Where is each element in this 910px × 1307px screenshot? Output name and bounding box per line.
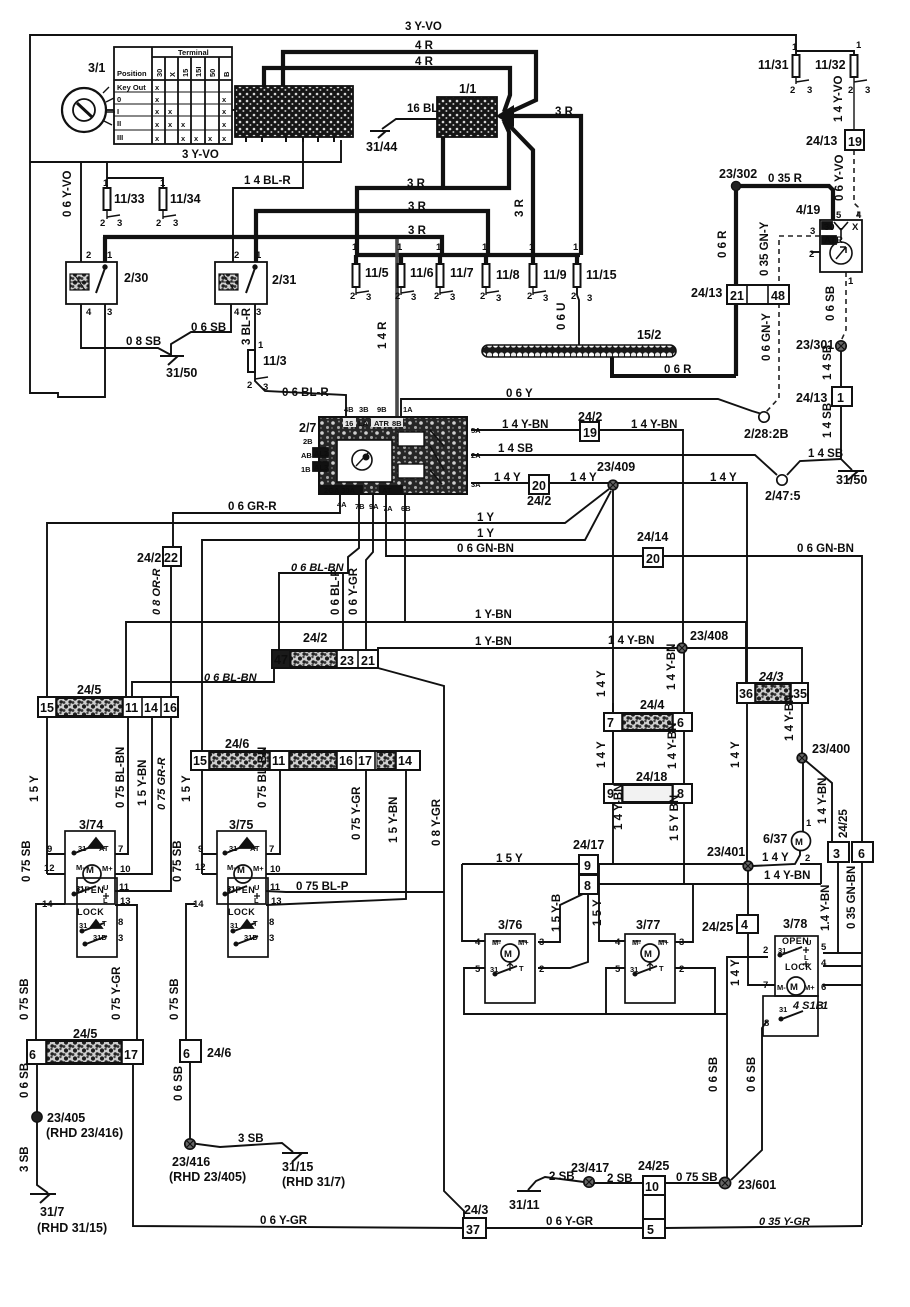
svg-text:2: 2 xyxy=(805,853,810,864)
svg-text:0 35 GN-Y: 0 35 GN-Y xyxy=(759,221,771,276)
svg-text:0 6 Y-GR: 0 6 Y-GR xyxy=(348,567,360,615)
svg-text:3 SB: 3 SB xyxy=(238,1133,264,1145)
svg-text:24/4: 24/4 xyxy=(640,698,664,712)
svg-text:4: 4 xyxy=(86,307,92,318)
svg-text:3: 3 xyxy=(411,292,416,303)
svg-text:1 4 SB: 1 4 SB xyxy=(808,448,843,460)
svg-text:M+: M+ xyxy=(102,864,113,873)
svg-text:1 4 Y-BN: 1 4 Y-BN xyxy=(608,635,654,647)
svg-text:11/5: 11/5 xyxy=(365,266,389,280)
svg-text:12: 12 xyxy=(44,863,55,874)
svg-text:6: 6 xyxy=(821,982,826,993)
svg-text:23/408: 23/408 xyxy=(690,629,728,643)
svg-text:2: 2 xyxy=(527,291,532,302)
svg-text:1: 1 xyxy=(529,242,535,253)
svg-text:M-: M- xyxy=(227,863,236,872)
svg-text:0 6 GR-R: 0 6 GR-R xyxy=(228,501,277,513)
svg-text:3/77: 3/77 xyxy=(636,918,660,932)
svg-text:31: 31 xyxy=(230,921,238,930)
svg-text:4A: 4A xyxy=(337,500,347,509)
svg-text:4: 4 xyxy=(475,937,481,948)
svg-text:x: x xyxy=(181,134,186,143)
svg-text:13: 13 xyxy=(271,896,282,907)
svg-text:2: 2 xyxy=(350,291,355,302)
svg-text:M-: M- xyxy=(777,983,786,992)
svg-text:22: 22 xyxy=(164,551,178,565)
svg-text:1: 1 xyxy=(792,42,798,53)
svg-text:3 R: 3 R xyxy=(514,198,526,217)
svg-text:30: 30 xyxy=(155,69,164,77)
svg-text:23: 23 xyxy=(340,654,354,668)
svg-text:1 4 Y: 1 4 Y xyxy=(596,741,608,768)
svg-text:3: 3 xyxy=(543,293,548,304)
svg-text:1 5 Y: 1 5 Y xyxy=(181,775,193,802)
svg-text:LOCK: LOCK xyxy=(228,907,255,917)
svg-text:24/25: 24/25 xyxy=(838,809,850,838)
svg-text:23/401: 23/401 xyxy=(707,845,745,859)
svg-text:11: 11 xyxy=(272,754,285,768)
svg-text:24/2: 24/2 xyxy=(527,494,551,508)
svg-text:AT: AT xyxy=(382,486,392,495)
svg-text:5: 5 xyxy=(821,942,827,953)
svg-text:7: 7 xyxy=(763,980,768,991)
svg-text:23/417: 23/417 xyxy=(571,1161,609,1175)
svg-text:AT: AT xyxy=(250,844,260,853)
svg-text:3: 3 xyxy=(117,218,122,229)
svg-text:X: X xyxy=(168,72,177,77)
svg-text:24/3: 24/3 xyxy=(758,670,783,684)
svg-text:6/37: 6/37 xyxy=(763,832,787,846)
svg-text:24/14: 24/14 xyxy=(637,530,668,544)
svg-text:1 5 Y: 1 5 Y xyxy=(496,853,523,865)
svg-text:OPEN: OPEN xyxy=(782,936,809,946)
svg-text:24/25: 24/25 xyxy=(702,920,733,934)
svg-text:1 5 Y: 1 5 Y xyxy=(592,899,604,926)
svg-text:24/25: 24/25 xyxy=(638,1159,669,1173)
svg-text:AL2: AL2 xyxy=(314,449,328,458)
svg-text:4B: 4B xyxy=(344,405,354,414)
svg-text:2: 2 xyxy=(100,218,105,229)
svg-text:3 R: 3 R xyxy=(407,178,426,190)
svg-text:0 35 GN-BN: 0 35 GN-BN xyxy=(846,866,858,929)
svg-text:11: 11 xyxy=(125,701,138,715)
svg-text:3 R: 3 R xyxy=(555,106,574,118)
svg-text:1 4 R: 1 4 R xyxy=(377,321,389,349)
svg-text:4: 4 xyxy=(741,918,748,932)
svg-text:11: 11 xyxy=(270,882,281,893)
svg-text:1 4 Y: 1 4 Y xyxy=(710,472,737,484)
svg-text:3 R: 3 R xyxy=(408,225,427,237)
svg-text:0 75 SB: 0 75 SB xyxy=(19,978,31,1020)
svg-text:37: 37 xyxy=(466,1223,480,1237)
svg-text:M-: M- xyxy=(492,938,501,947)
svg-text:2: 2 xyxy=(790,85,795,96)
svg-text:0 75 SB: 0 75 SB xyxy=(172,840,184,882)
svg-text:AT: AT xyxy=(99,844,109,853)
svg-text:2/28:2B: 2/28:2B xyxy=(744,427,788,441)
svg-text:5: 5 xyxy=(647,1223,654,1237)
svg-text:L: L xyxy=(103,896,108,905)
svg-text:II: II xyxy=(117,119,121,128)
svg-text:B: B xyxy=(222,71,231,77)
svg-text:1 4 Y-BN: 1 4 Y-BN xyxy=(817,778,829,824)
svg-text:8: 8 xyxy=(584,879,591,893)
svg-text:3: 3 xyxy=(450,292,455,303)
svg-text:0 6 Y-GR: 0 6 Y-GR xyxy=(546,1216,594,1228)
svg-text:1 4 Y-BN: 1 4 Y-BN xyxy=(667,723,679,769)
svg-text:x: x xyxy=(222,134,227,143)
svg-text:14: 14 xyxy=(398,754,412,768)
svg-text:7: 7 xyxy=(607,716,614,730)
svg-text:1 4 SB: 1 4 SB xyxy=(498,443,533,455)
svg-text:0 6 BL-BN: 0 6 BL-BN xyxy=(204,672,258,684)
svg-text:2: 2 xyxy=(763,945,768,956)
svg-text:0 6 U: 0 6 U xyxy=(556,303,568,331)
svg-text:LOCK: LOCK xyxy=(77,907,104,917)
svg-text:3: 3 xyxy=(118,933,123,944)
svg-text:0 6 Y-GR: 0 6 Y-GR xyxy=(260,1215,308,1227)
svg-text:1: 1 xyxy=(856,40,862,51)
svg-text:0 75 BL-P: 0 75 BL-P xyxy=(296,881,349,893)
svg-text:0 6 SB: 0 6 SB xyxy=(746,1057,758,1092)
svg-text:0 6 Y: 0 6 Y xyxy=(506,388,533,400)
svg-text:1A: 1A xyxy=(403,405,413,414)
svg-text:1 4 Y: 1 4 Y xyxy=(570,472,597,484)
svg-text:4: 4 xyxy=(615,937,621,948)
svg-text:3 R: 3 R xyxy=(408,201,427,213)
svg-text:16: 16 xyxy=(345,419,353,428)
svg-text:I: I xyxy=(117,107,119,116)
svg-text:47: 47 xyxy=(274,653,288,667)
svg-text:x: x xyxy=(155,120,160,129)
svg-text:x: x xyxy=(222,107,227,116)
svg-text:1 5 Y: 1 5 Y xyxy=(29,775,41,802)
svg-text:AL3: AL3 xyxy=(314,463,328,472)
svg-text:1 4 Y-VO: 1 4 Y-VO xyxy=(833,75,845,122)
svg-text:3: 3 xyxy=(107,307,112,318)
svg-text:5: 5 xyxy=(615,964,621,975)
svg-text:ATR: ATR xyxy=(824,235,843,246)
svg-text:1: 1 xyxy=(352,242,358,253)
svg-text:19: 19 xyxy=(848,135,862,149)
svg-text:16: 16 xyxy=(163,701,177,715)
svg-text:31/7: 31/7 xyxy=(40,1205,64,1219)
svg-text:11/31: 11/31 xyxy=(758,58,789,72)
svg-text:0 6 SB: 0 6 SB xyxy=(19,1063,31,1098)
svg-text:1 4 Y-BN: 1 4 Y-BN xyxy=(502,419,548,431)
svg-text:21: 21 xyxy=(361,654,375,668)
svg-text:6: 6 xyxy=(29,1048,36,1062)
svg-text:7: 7 xyxy=(118,844,123,855)
svg-text:9A: 9A xyxy=(369,502,379,511)
svg-text:11/6: 11/6 xyxy=(410,266,434,280)
svg-text:0 6 Y-VO: 0 6 Y-VO xyxy=(62,170,74,217)
svg-text:12: 12 xyxy=(195,862,206,873)
svg-text:31: 31 xyxy=(779,1005,787,1014)
svg-text:24/13: 24/13 xyxy=(806,134,837,148)
svg-text:x: x xyxy=(208,134,213,143)
svg-text:x: x xyxy=(222,95,227,104)
svg-text:3/78: 3/78 xyxy=(783,917,807,931)
svg-text:1 4 Y: 1 4 Y xyxy=(494,472,521,484)
svg-text:3/76: 3/76 xyxy=(498,918,522,932)
svg-text:0 75 SB: 0 75 SB xyxy=(169,978,181,1020)
svg-text:T: T xyxy=(102,919,107,928)
svg-text:M: M xyxy=(237,865,245,876)
svg-text:1 5 Y-B: 1 5 Y-B xyxy=(551,894,563,932)
svg-text:0 6 SB: 0 6 SB xyxy=(708,1057,720,1092)
svg-text:0 8 Y-GR: 0 8 Y-GR xyxy=(431,798,443,846)
svg-text:M: M xyxy=(644,949,652,960)
svg-text:8: 8 xyxy=(269,917,274,928)
svg-text:31: 31 xyxy=(79,921,87,930)
svg-text:16 BL: 16 BL xyxy=(407,103,438,115)
svg-text:3/74: 3/74 xyxy=(79,818,103,832)
svg-text:15/2: 15/2 xyxy=(637,328,661,342)
svg-text:Key Out: Key Out xyxy=(117,83,146,92)
svg-text:1: 1 xyxy=(103,178,109,189)
svg-text:2: 2 xyxy=(247,380,252,391)
svg-text:24/17: 24/17 xyxy=(573,838,604,852)
svg-text:31: 31 xyxy=(229,844,237,853)
svg-text:23/302: 23/302 xyxy=(719,167,757,181)
svg-text:1: 1 xyxy=(806,818,812,829)
svg-text:24/13: 24/13 xyxy=(691,286,722,300)
svg-text:3A: 3A xyxy=(471,480,481,489)
svg-text:23/601: 23/601 xyxy=(738,1178,776,1192)
svg-text:AB: AB xyxy=(301,451,312,460)
svg-text:31D: 31D xyxy=(93,933,107,942)
svg-text:24/6: 24/6 xyxy=(207,1046,231,1060)
svg-text:13: 13 xyxy=(120,896,131,907)
svg-text:1: 1 xyxy=(837,391,844,405)
svg-text:M: M xyxy=(504,949,512,960)
svg-text:1: 1 xyxy=(256,250,262,261)
svg-text:9: 9 xyxy=(584,859,591,873)
svg-text:2/30: 2/30 xyxy=(124,271,148,285)
svg-text:M+: M+ xyxy=(253,864,264,873)
svg-text:1: 1 xyxy=(848,276,854,287)
svg-text:3: 3 xyxy=(865,85,870,96)
svg-text:17: 17 xyxy=(124,1048,138,1062)
svg-text:3: 3 xyxy=(366,292,371,303)
svg-text:7: 7 xyxy=(269,844,274,855)
svg-text:24/3: 24/3 xyxy=(464,1203,488,1217)
svg-text:50: 50 xyxy=(208,69,217,77)
svg-text:15: 15 xyxy=(40,701,54,715)
svg-text:M: M xyxy=(86,865,94,876)
svg-text:15I: 15I xyxy=(194,67,203,77)
svg-text:x: x xyxy=(168,107,173,116)
svg-text:2: 2 xyxy=(395,291,400,302)
svg-text:3 Y-VO: 3 Y-VO xyxy=(182,149,219,161)
svg-text:2 SB: 2 SB xyxy=(549,1171,575,1183)
svg-text:11/9: 11/9 xyxy=(543,268,567,282)
svg-text:8: 8 xyxy=(118,917,123,928)
svg-text:1 5 Y BN: 1 5 Y BN xyxy=(669,795,681,841)
svg-text:3/1: 3/1 xyxy=(88,61,105,75)
svg-text:1: 1 xyxy=(573,242,579,253)
svg-text:3 Y-VO: 3 Y-VO xyxy=(405,21,442,33)
svg-text:3: 3 xyxy=(173,218,178,229)
svg-text:x: x xyxy=(155,107,160,116)
svg-text:31/11: 31/11 xyxy=(509,1198,540,1212)
svg-text:11: 11 xyxy=(119,882,130,893)
svg-text:1B: 1B xyxy=(301,465,311,474)
svg-text:0 75 Y-GR: 0 75 Y-GR xyxy=(351,786,363,840)
svg-text:2: 2 xyxy=(539,964,544,975)
svg-text:31: 31 xyxy=(490,965,498,974)
svg-text:1: 1 xyxy=(822,1000,828,1012)
svg-text:0 6 GN-BN: 0 6 GN-BN xyxy=(457,543,514,555)
svg-text:x: x xyxy=(155,95,160,104)
svg-text:(RHD 23/416): (RHD 23/416) xyxy=(46,1126,123,1140)
svg-text:0 6 BL-P: 0 6 BL-P xyxy=(330,569,342,615)
svg-text:4 S1B: 4 S1B xyxy=(792,1000,824,1012)
svg-text:3: 3 xyxy=(810,226,815,237)
svg-text:11/34: 11/34 xyxy=(170,192,201,206)
svg-text:23/416: 23/416 xyxy=(172,1155,210,1169)
svg-text:0 6 GN-Y: 0 6 GN-Y xyxy=(761,313,773,361)
svg-text:0 75 SB: 0 75 SB xyxy=(21,840,33,882)
svg-text:2/7: 2/7 xyxy=(299,421,316,435)
svg-text:24/2: 24/2 xyxy=(578,410,602,424)
svg-text:8: 8 xyxy=(764,1018,769,1029)
svg-text:T: T xyxy=(659,964,664,973)
svg-text:1 4 Y-BN: 1 4 Y-BN xyxy=(631,419,677,431)
svg-text:31/50: 31/50 xyxy=(166,366,197,380)
svg-text:L: L xyxy=(254,896,259,905)
svg-text:2: 2 xyxy=(480,291,485,302)
svg-text:11/15: 11/15 xyxy=(586,268,617,282)
svg-text:1 Y-BN: 1 Y-BN xyxy=(475,636,512,648)
svg-text:24/5: 24/5 xyxy=(77,683,101,697)
svg-text:0 35 Y-GR: 0 35 Y-GR xyxy=(759,1216,810,1228)
svg-text:17: 17 xyxy=(358,754,372,768)
svg-text:9: 9 xyxy=(47,844,52,855)
svg-text:11/7: 11/7 xyxy=(450,266,474,280)
svg-text:16: 16 xyxy=(339,754,353,768)
svg-text:0 6 R: 0 6 R xyxy=(664,364,692,376)
svg-text:31: 31 xyxy=(630,965,638,974)
svg-text:4: 4 xyxy=(234,307,240,318)
svg-text:0 6 SB: 0 6 SB xyxy=(825,286,837,321)
svg-text:OPEN: OPEN xyxy=(77,885,104,895)
svg-text:1 4 Y-BN: 1 4 Y-BN xyxy=(764,870,810,882)
svg-text:24/2: 24/2 xyxy=(137,551,161,565)
svg-text:1: 1 xyxy=(160,178,166,189)
svg-text:2: 2 xyxy=(809,249,814,260)
svg-text:1 Y: 1 Y xyxy=(477,512,494,524)
svg-text:2 SB: 2 SB xyxy=(607,1173,633,1185)
svg-text:T: T xyxy=(253,919,258,928)
svg-text:1 4 Y: 1 4 Y xyxy=(596,670,608,697)
svg-text:36: 36 xyxy=(739,687,753,701)
svg-text:3: 3 xyxy=(263,382,268,393)
svg-text:4/19: 4/19 xyxy=(796,203,820,217)
svg-text:11/32: 11/32 xyxy=(815,58,846,72)
svg-text:9: 9 xyxy=(198,844,203,855)
svg-text:1: 1 xyxy=(258,340,264,351)
svg-text:23/405: 23/405 xyxy=(47,1111,85,1125)
svg-text:31: 31 xyxy=(78,844,86,853)
svg-text:1 Y-BN: 1 Y-BN xyxy=(475,609,512,621)
svg-text:x: x xyxy=(155,83,160,92)
svg-text:3: 3 xyxy=(679,937,684,948)
svg-text:10: 10 xyxy=(120,864,131,875)
svg-text:20: 20 xyxy=(646,552,660,566)
svg-text:Position: Position xyxy=(117,69,147,78)
svg-text:1: 1 xyxy=(436,242,442,253)
svg-text:48: 48 xyxy=(771,289,785,303)
svg-text:(RHD 31/7): (RHD 31/7) xyxy=(282,1175,345,1189)
svg-text:15: 15 xyxy=(193,754,207,768)
svg-text:OPEN: OPEN xyxy=(228,885,255,895)
svg-text:9B: 9B xyxy=(377,405,387,414)
svg-text:0 6 SB: 0 6 SB xyxy=(173,1066,185,1101)
svg-text:10: 10 xyxy=(270,864,281,875)
svg-text:Terminal: Terminal xyxy=(178,48,209,57)
svg-text:3: 3 xyxy=(807,85,812,96)
svg-text:24/5: 24/5 xyxy=(73,1027,97,1041)
svg-text:23/400: 23/400 xyxy=(812,742,850,756)
svg-text:3/75: 3/75 xyxy=(229,818,253,832)
svg-text:31D: 31D xyxy=(244,933,258,942)
svg-text:1 4 SB: 1 4 SB xyxy=(822,345,834,380)
svg-text:1 4 Y-BN: 1 4 Y-BN xyxy=(613,784,625,830)
svg-text:1 5 Y-BN: 1 5 Y-BN xyxy=(388,797,400,843)
svg-text:M+: M+ xyxy=(658,938,669,947)
svg-text:2: 2 xyxy=(86,250,91,261)
svg-text:3: 3 xyxy=(539,937,544,948)
svg-text:31/15: 31/15 xyxy=(282,1160,313,1174)
svg-text:2: 2 xyxy=(434,291,439,302)
svg-text:4 R: 4 R xyxy=(415,40,434,52)
svg-text:2: 2 xyxy=(234,250,239,261)
svg-text:M+: M+ xyxy=(518,938,529,947)
svg-text:1 4 Y: 1 4 Y xyxy=(730,959,742,986)
svg-text:2/47:5: 2/47:5 xyxy=(765,489,800,503)
svg-text:31: 31 xyxy=(778,946,786,955)
svg-text:3 BL-R: 3 BL-R xyxy=(241,307,253,345)
svg-text:x: x xyxy=(194,134,199,143)
svg-text:24/6: 24/6 xyxy=(225,737,249,751)
svg-text:LOCK: LOCK xyxy=(785,962,812,972)
svg-text:14: 14 xyxy=(193,899,204,910)
svg-text:M: M xyxy=(790,982,798,993)
svg-text:7A: 7A xyxy=(383,504,393,513)
svg-text:24/18: 24/18 xyxy=(636,770,667,784)
svg-text:3B: 3B xyxy=(359,405,369,414)
svg-text:0 75 SB: 0 75 SB xyxy=(676,1172,718,1184)
svg-text:0: 0 xyxy=(117,95,121,104)
svg-text:2: 2 xyxy=(848,85,853,96)
svg-text:20: 20 xyxy=(532,479,546,493)
svg-text:3: 3 xyxy=(256,307,261,318)
svg-text:3: 3 xyxy=(587,293,592,304)
svg-text:III: III xyxy=(117,133,123,142)
svg-text:1 5 Y-BN: 1 5 Y-BN xyxy=(137,760,149,806)
svg-text:6: 6 xyxy=(858,847,865,861)
svg-text:0 75 Y-GR: 0 75 Y-GR xyxy=(111,966,123,1020)
svg-text:1 4 Y: 1 4 Y xyxy=(762,852,789,864)
svg-text:11/8: 11/8 xyxy=(496,268,520,282)
svg-text:1: 1 xyxy=(107,250,113,261)
svg-text:10: 10 xyxy=(645,1180,659,1194)
svg-text:3: 3 xyxy=(833,847,840,861)
svg-text:0 8 SB: 0 8 SB xyxy=(126,336,161,348)
svg-text:2GA 30A: 2GA 30A xyxy=(324,486,356,495)
